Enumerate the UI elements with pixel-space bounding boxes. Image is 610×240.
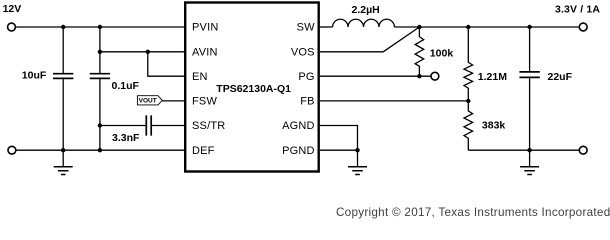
terminal VOUT- (output return) <box>579 146 587 154</box>
node: SW/VOS junction <box>417 25 421 29</box>
node: VOUT junction at C4 <box>527 25 531 29</box>
svg-text:383k: 383k <box>482 119 506 131</box>
wire: VIN rail to PVIN <box>16 26 185 28</box>
wire: SW to L1 <box>320 26 333 28</box>
svg-text:Copyright © 2017, Texas Instru: Copyright © 2017, Texas Instruments Inco… <box>336 206 610 219</box>
node: DEF junction <box>98 148 102 152</box>
svg-text:2.2µH: 2.2µH <box>352 4 380 16</box>
svg-text:3.3V / 1A: 3.3V / 1A <box>555 4 600 16</box>
op-amp U1 TPS62130A-Q1 body <box>185 3 319 172</box>
svg-text:1.21M: 1.21M <box>478 71 507 83</box>
svg-text:TPS62130A-Q1: TPS62130A-Q1 <box>216 83 291 95</box>
svg-text:PGND: PGND <box>282 145 315 157</box>
svg-text:PVIN: PVIN <box>192 22 218 34</box>
resistor R1 100k <box>415 27 424 76</box>
svg-text:3.3nF: 3.3nF <box>112 132 140 144</box>
svg-text:VOUT: VOUT <box>139 98 157 105</box>
svg-text:AVIN: AVIN <box>192 47 218 59</box>
node: PG junction <box>417 74 421 78</box>
resistor R2 1.21M <box>464 27 473 101</box>
wire: SS/TR to C3 <box>100 125 146 127</box>
svg-text:PG: PG <box>298 71 314 83</box>
ground GND1 <box>54 150 73 174</box>
node: VIN junction at C2 <box>98 25 102 29</box>
wire: C2 top lead <box>99 27 101 73</box>
svg-text:AGND: AGND <box>282 120 315 132</box>
node: EN branch junction <box>146 50 150 54</box>
svg-text:100k: 100k <box>430 48 454 60</box>
wire: AVIN <box>100 51 184 53</box>
node: input ground junction <box>61 148 65 152</box>
wire: PG <box>320 75 431 77</box>
svg-text:SW: SW <box>297 22 316 34</box>
svg-text:10uF: 10uF <box>22 70 47 82</box>
terminal VIN+ (12V input) <box>8 23 16 31</box>
ground GND3 <box>520 150 539 174</box>
svg-text:22uF: 22uF <box>548 71 573 83</box>
wire: C4 top lead <box>529 27 531 71</box>
wire: C1 top lead <box>62 27 64 73</box>
svg-text:FSW: FSW <box>192 96 217 108</box>
wire: EN branch <box>148 52 184 76</box>
svg-text:FB: FB <box>300 96 314 108</box>
node: PGND junction <box>355 148 359 152</box>
resistor R3 383k <box>464 101 473 150</box>
svg-text:12V: 12V <box>3 3 22 15</box>
wire: C4 bottom lead <box>529 78 531 150</box>
wire: FB <box>320 100 468 102</box>
terminal VOUT+ (3.3V output) <box>579 23 587 31</box>
node: FB junction <box>466 99 470 103</box>
ground GND2 <box>348 150 367 174</box>
wire: VOS sense <box>320 27 419 52</box>
wire: FSW <box>162 100 184 102</box>
wire: AGND <box>320 126 358 151</box>
net flag VOUT <box>137 96 162 105</box>
terminal PG <box>431 72 439 80</box>
node: AVIN junction <box>98 50 102 54</box>
node: SS/TR junction <box>98 123 102 127</box>
terminal VIN- (input return) <box>8 146 16 154</box>
wire: VOUT rail <box>394 26 579 28</box>
capacitor C4 22uF <box>519 72 539 78</box>
node: output return junction <box>527 148 531 152</box>
wire: PGND <box>320 149 358 151</box>
wire: C1 bottom lead <box>62 79 64 150</box>
svg-text:DEF: DEF <box>192 145 215 157</box>
wire: C2 bottom lead <box>99 79 101 150</box>
wire: C3 to SS/TR pin <box>152 125 184 127</box>
capacitor C1 10uF <box>53 74 73 79</box>
svg-text:0.1uF: 0.1uF <box>112 80 140 92</box>
svg-text:EN: EN <box>192 71 208 83</box>
node: VIN junction at C1 <box>61 25 65 29</box>
svg-text:VOS: VOS <box>291 47 315 59</box>
svg-text:SS/TR: SS/TR <box>192 120 225 132</box>
inductor L1 2.2uH <box>333 19 395 27</box>
node: VOUT junction at R2 <box>466 25 470 29</box>
wire: bottom rail to DEF <box>16 149 184 151</box>
capacitor C3 3.3nF <box>146 115 151 135</box>
capacitor C2 0.1uF <box>90 74 110 79</box>
wire: output return rail <box>468 149 579 151</box>
